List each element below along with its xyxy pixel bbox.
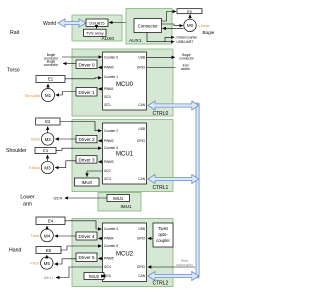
svg-text:GPIO: GPIO (137, 66, 145, 70)
svg-text:E5: E5 (46, 248, 52, 253)
motor M3 (41, 161, 53, 173)
wire E2 to Counter2 (60, 122, 102, 131)
encoder E4 (36, 217, 65, 225)
svg-text:USB: USB (138, 56, 145, 60)
svg-text:Counter 3: Counter 3 (104, 146, 118, 150)
svg-text:Wrist: Wrist (31, 137, 41, 142)
Driver 2 (76, 135, 97, 142)
encoder E2 (36, 118, 60, 125)
encoder E5 (36, 247, 61, 254)
wire M5 to E5 (46, 255, 48, 257)
svg-text:PWM1: PWM1 (104, 87, 114, 91)
wire Connector to M0 (162, 24, 183, 26)
green box CTRL0 (72, 49, 173, 117)
svg-text:E2: E2 (45, 119, 51, 124)
CTRL2 double arrow (148, 272, 199, 281)
IMU0 (75, 178, 100, 186)
svg-text:Driver 0: Driver 0 (78, 62, 95, 67)
svg-text:E0: E0 (187, 10, 192, 14)
svg-text:Twist: Twist (158, 226, 168, 231)
svg-text:PWM2: PWM2 (104, 139, 114, 143)
svg-text:World: World (43, 21, 56, 27)
motor M5 (41, 257, 53, 269)
motor M0 (184, 19, 196, 31)
motor M4 (41, 229, 54, 242)
motor M1 (42, 89, 55, 102)
svg-text:DSUB15: DSUB15 (89, 20, 104, 25)
svg-text:TVS array: TVS array (86, 31, 104, 36)
IMU1 box (107, 195, 130, 202)
CTRL0 double arrow (148, 101, 199, 110)
IMU2 (84, 273, 104, 280)
svg-text:CAN: CAN (138, 103, 145, 107)
svg-text:CAN: CAN (138, 274, 145, 278)
svg-text:CTRL2: CTRL2 (153, 281, 169, 287)
svg-text:I2C3: I2C3 (104, 177, 111, 181)
svg-text:Torso: Torso (7, 68, 20, 74)
svg-text:I2C4: I2C4 (104, 265, 111, 269)
svg-text:connector: connector (44, 63, 59, 67)
svg-text:I2C0: I2C0 (104, 95, 111, 99)
MCU0 (103, 52, 147, 110)
wire M0 to Connector (163, 27, 184, 29)
Driver 4 (76, 232, 97, 240)
svg-text:E4: E4 (48, 219, 54, 224)
wire PWM4 to Driver4 (98, 237, 102, 239)
wire Driver4 to M4 (55, 235, 76, 237)
svg-text:CTRL1: CTRL1 (153, 185, 169, 191)
TVS array (84, 29, 106, 36)
svg-text:connector: connector (179, 57, 194, 61)
wire I2C2 to IMU0 (87, 171, 103, 177)
wire Driver3 to M3 (55, 161, 76, 168)
wire M1 to E1 (47, 84, 49, 88)
svg-text:IMU2: IMU2 (89, 274, 100, 279)
wire PWM2 to Driver2 (98, 140, 102, 142)
encoder E1 (36, 76, 65, 83)
svg-text:AUX1: AUX1 (129, 38, 142, 44)
motor M2 (42, 133, 54, 145)
wire Driver1 to M1 (56, 92, 76, 96)
svg-text:M0: M0 (187, 23, 194, 28)
Driver 1 (76, 88, 97, 97)
svg-text:MCU2: MCU2 (116, 252, 134, 258)
connector DSUB15 (86, 19, 108, 26)
svg-text:GPIO: GPIO (137, 237, 145, 241)
svg-text:switch: switch (181, 67, 190, 71)
svg-text:M5: M5 (44, 261, 51, 266)
svg-text:USB: USB (138, 127, 145, 131)
svg-text:CTRL0: CTRL0 (153, 111, 169, 117)
wire GPIO2 to Wrist optocoupler label (148, 266, 195, 268)
svg-text:opto-: opto- (158, 232, 168, 237)
wire E5 to Counter5 (61, 246, 102, 250)
green box CTRL2 (72, 219, 173, 287)
encoder E3 (35, 148, 56, 154)
svg-text:Twist: Twist (30, 233, 40, 238)
svg-text:I2C5: I2C5 (104, 274, 111, 278)
wire M3 to E3 (47, 155, 49, 161)
svg-text:M3: M3 (44, 165, 51, 170)
wire to USB/UART (165, 41, 174, 43)
svg-text:coupler: coupler (156, 238, 170, 243)
wire I2C4 to IMU1 label (56, 267, 103, 278)
wire Connector to E0 (162, 12, 177, 22)
Driver 3 (76, 156, 97, 163)
svg-text:Counter 2: Counter 2 (104, 129, 118, 133)
svg-text:Driver 1: Driver 1 (78, 90, 95, 95)
svg-text:Counter 5: Counter 5 (104, 244, 118, 248)
wire Driver0 to Bogie connector (63, 63, 75, 65)
svg-text:Pitch: Pitch (30, 261, 39, 266)
svg-text:PWM3: PWM3 (104, 160, 114, 164)
svg-text:M2: M2 (45, 137, 52, 142)
svg-text:Driver/counter: Driver/counter (177, 36, 199, 40)
wire to Driver/counter (165, 37, 174, 41)
svg-text:arm: arm (23, 202, 32, 208)
svg-text:Rail: Rail (10, 30, 19, 36)
wire M2 to E2 (47, 127, 49, 133)
wire E3 to Counter3 (56, 148, 102, 150)
svg-text:M1: M1 (45, 93, 52, 98)
svg-text:Linear: Linear (199, 23, 211, 28)
svg-text:I2C4: I2C4 (54, 196, 63, 201)
green box AUX0 (72, 15, 122, 42)
connector box AUX1 (134, 19, 162, 33)
wire IMU1 to I2C4 label (65, 197, 107, 199)
MCU2 (103, 223, 147, 282)
svg-text:Lower: Lower (20, 195, 34, 201)
wire E1 to Counter1 (65, 78, 102, 79)
CTRL1 double arrow (148, 175, 199, 184)
wire PWM1 to Driver1 (98, 88, 102, 90)
wire PWM0 to Driver0 (98, 67, 102, 69)
Twist opto-coupler box (153, 223, 173, 247)
svg-text:Counter 0: Counter 0 (104, 56, 118, 60)
svg-text:Elbow: Elbow (29, 165, 40, 170)
svg-text:Driver 4: Driver 4 (78, 234, 95, 239)
svg-text:PWM4: PWM4 (104, 237, 114, 241)
green box CTRL1 (72, 120, 173, 192)
wire Driver2 to M2 (55, 138, 76, 140)
green box AUX1 (126, 9, 172, 45)
encoder E0 (177, 9, 202, 14)
svg-text:E3: E3 (43, 148, 49, 153)
svg-text:Counter 1: Counter 1 (104, 75, 118, 79)
svg-text:IMU1: IMU1 (44, 275, 54, 280)
svg-text:I2C1: I2C1 (104, 103, 111, 107)
svg-text:Driver 2: Driver 2 (78, 137, 95, 142)
svg-text:Shoulder: Shoulder (6, 148, 27, 154)
wire M0 to E0 (189, 15, 191, 20)
wire E4 to Counter4 (65, 221, 102, 229)
svg-text:Driver 3: Driver 3 (78, 157, 95, 162)
wire DSUB15 to TVS array (96, 26, 98, 28)
svg-text:Connector: Connector (138, 23, 159, 28)
green box IMU1 (98, 193, 141, 212)
svg-text:M4: M4 (44, 233, 51, 238)
svg-text:IMU0: IMU0 (81, 180, 92, 185)
svg-text:PWM5: PWM5 (104, 257, 114, 261)
svg-text:Shoulder: Shoulder (24, 93, 41, 98)
wire PWM3 to Driver3 (98, 161, 102, 163)
wire Twist box to GPIO (148, 237, 153, 239)
svg-text:E1: E1 (48, 77, 54, 82)
svg-text:Bogie: Bogie (203, 30, 215, 35)
wire USB to Bogie connector label (147, 56, 175, 58)
svg-text:MCU0: MCU0 (116, 82, 134, 88)
wire Connector to outputs (147, 33, 165, 42)
wire GPIO to End switch (147, 67, 176, 69)
wire Driver5 to M5 (55, 259, 77, 264)
svg-text:optocoupler: optocoupler (176, 263, 194, 267)
MCU1 (103, 123, 147, 184)
svg-text:MCU1: MCU1 (116, 152, 134, 158)
Driver 5 (76, 253, 97, 262)
svg-text:CAN: CAN (138, 177, 145, 181)
Driver 0 (76, 60, 97, 69)
svg-text:Driver 5: Driver 5 (78, 255, 95, 260)
svg-text:I2C2: I2C2 (104, 169, 111, 173)
svg-text:IMU1: IMU1 (121, 204, 132, 209)
svg-text:GPIO: GPIO (137, 139, 145, 143)
world double arrow (58, 19, 86, 27)
wire M4 to E4 (46, 226, 48, 229)
wire DSUB15 to Connector (double) (109, 22, 133, 24)
wire IMU2 to I2C5 double (102, 275, 105, 277)
svg-text:PWM0: PWM0 (104, 66, 114, 70)
svg-text:USB: USB (138, 227, 145, 231)
svg-text:IMU1: IMU1 (113, 196, 124, 201)
svg-text:GPIO: GPIO (137, 265, 145, 269)
svg-text:Hand: Hand (9, 248, 22, 254)
wire PWM5 to Driver5 (98, 258, 102, 260)
svg-text:USB/UART: USB/UART (177, 40, 194, 44)
svg-text:Counter 4: Counter 4 (104, 227, 118, 231)
blue bus vertical (196, 103, 199, 278)
wire Bogie connector to Counter0 (62, 56, 102, 58)
